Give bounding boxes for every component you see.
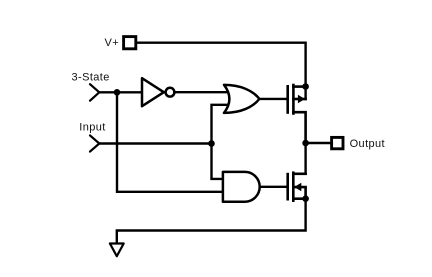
terminal Output (332, 137, 343, 148)
svg-text:3-State: 3-State (72, 72, 110, 84)
source stub bottom (293, 197, 305, 200)
body stub with arrow (293, 98, 305, 101)
source stub top (293, 85, 305, 88)
ground (110, 244, 124, 257)
AND gate U3 (223, 172, 260, 202)
svg-text:V+: V+ (105, 37, 120, 49)
wire V+ rail to PMOS source (137, 43, 306, 99)
wire 3-State to inverter input (99, 91, 142, 93)
wire Input junction up to OR gate lower input (212, 105, 228, 144)
3-State input arrow (90, 84, 99, 101)
node junction output (302, 140, 309, 147)
wire output node down to NMOS drain (304, 143, 306, 174)
node junction 3-State (114, 89, 121, 96)
OR gate U2 (224, 85, 259, 113)
gate bar (286, 174, 289, 199)
channel bar (292, 85, 295, 114)
wire NMOS source to ground (117, 199, 306, 244)
transistor Q1 PMOS (288, 85, 306, 143)
svg-text:Input: Input (79, 122, 105, 134)
Input arrow (90, 135, 99, 151)
wire OR output to PMOS gate (259, 98, 286, 100)
drain stub bottom (293, 112, 305, 143)
node junction NMOS source/body (302, 195, 309, 202)
drain stub top (293, 173, 305, 176)
node junction PMOS source/body at V+ (302, 83, 309, 90)
wire AND output to NMOS gate (260, 186, 287, 188)
wire output node to terminal (306, 142, 331, 144)
node junction Input (208, 140, 215, 147)
channel bar (292, 173, 295, 201)
svg-text:Output: Output (350, 138, 385, 150)
inverter U1 (142, 78, 174, 106)
terminal V+ (124, 37, 136, 49)
wire Input junction down to AND gate upper input (212, 144, 223, 179)
wire inverter output to OR gate upper input (174, 91, 227, 93)
wire 3-State down to AND gate lower input (117, 92, 223, 192)
body stub with arrow (293, 187, 305, 199)
gate bar (286, 86, 289, 112)
wire Input to junction (99, 142, 211, 144)
transistor Q2 NMOS (288, 173, 306, 201)
